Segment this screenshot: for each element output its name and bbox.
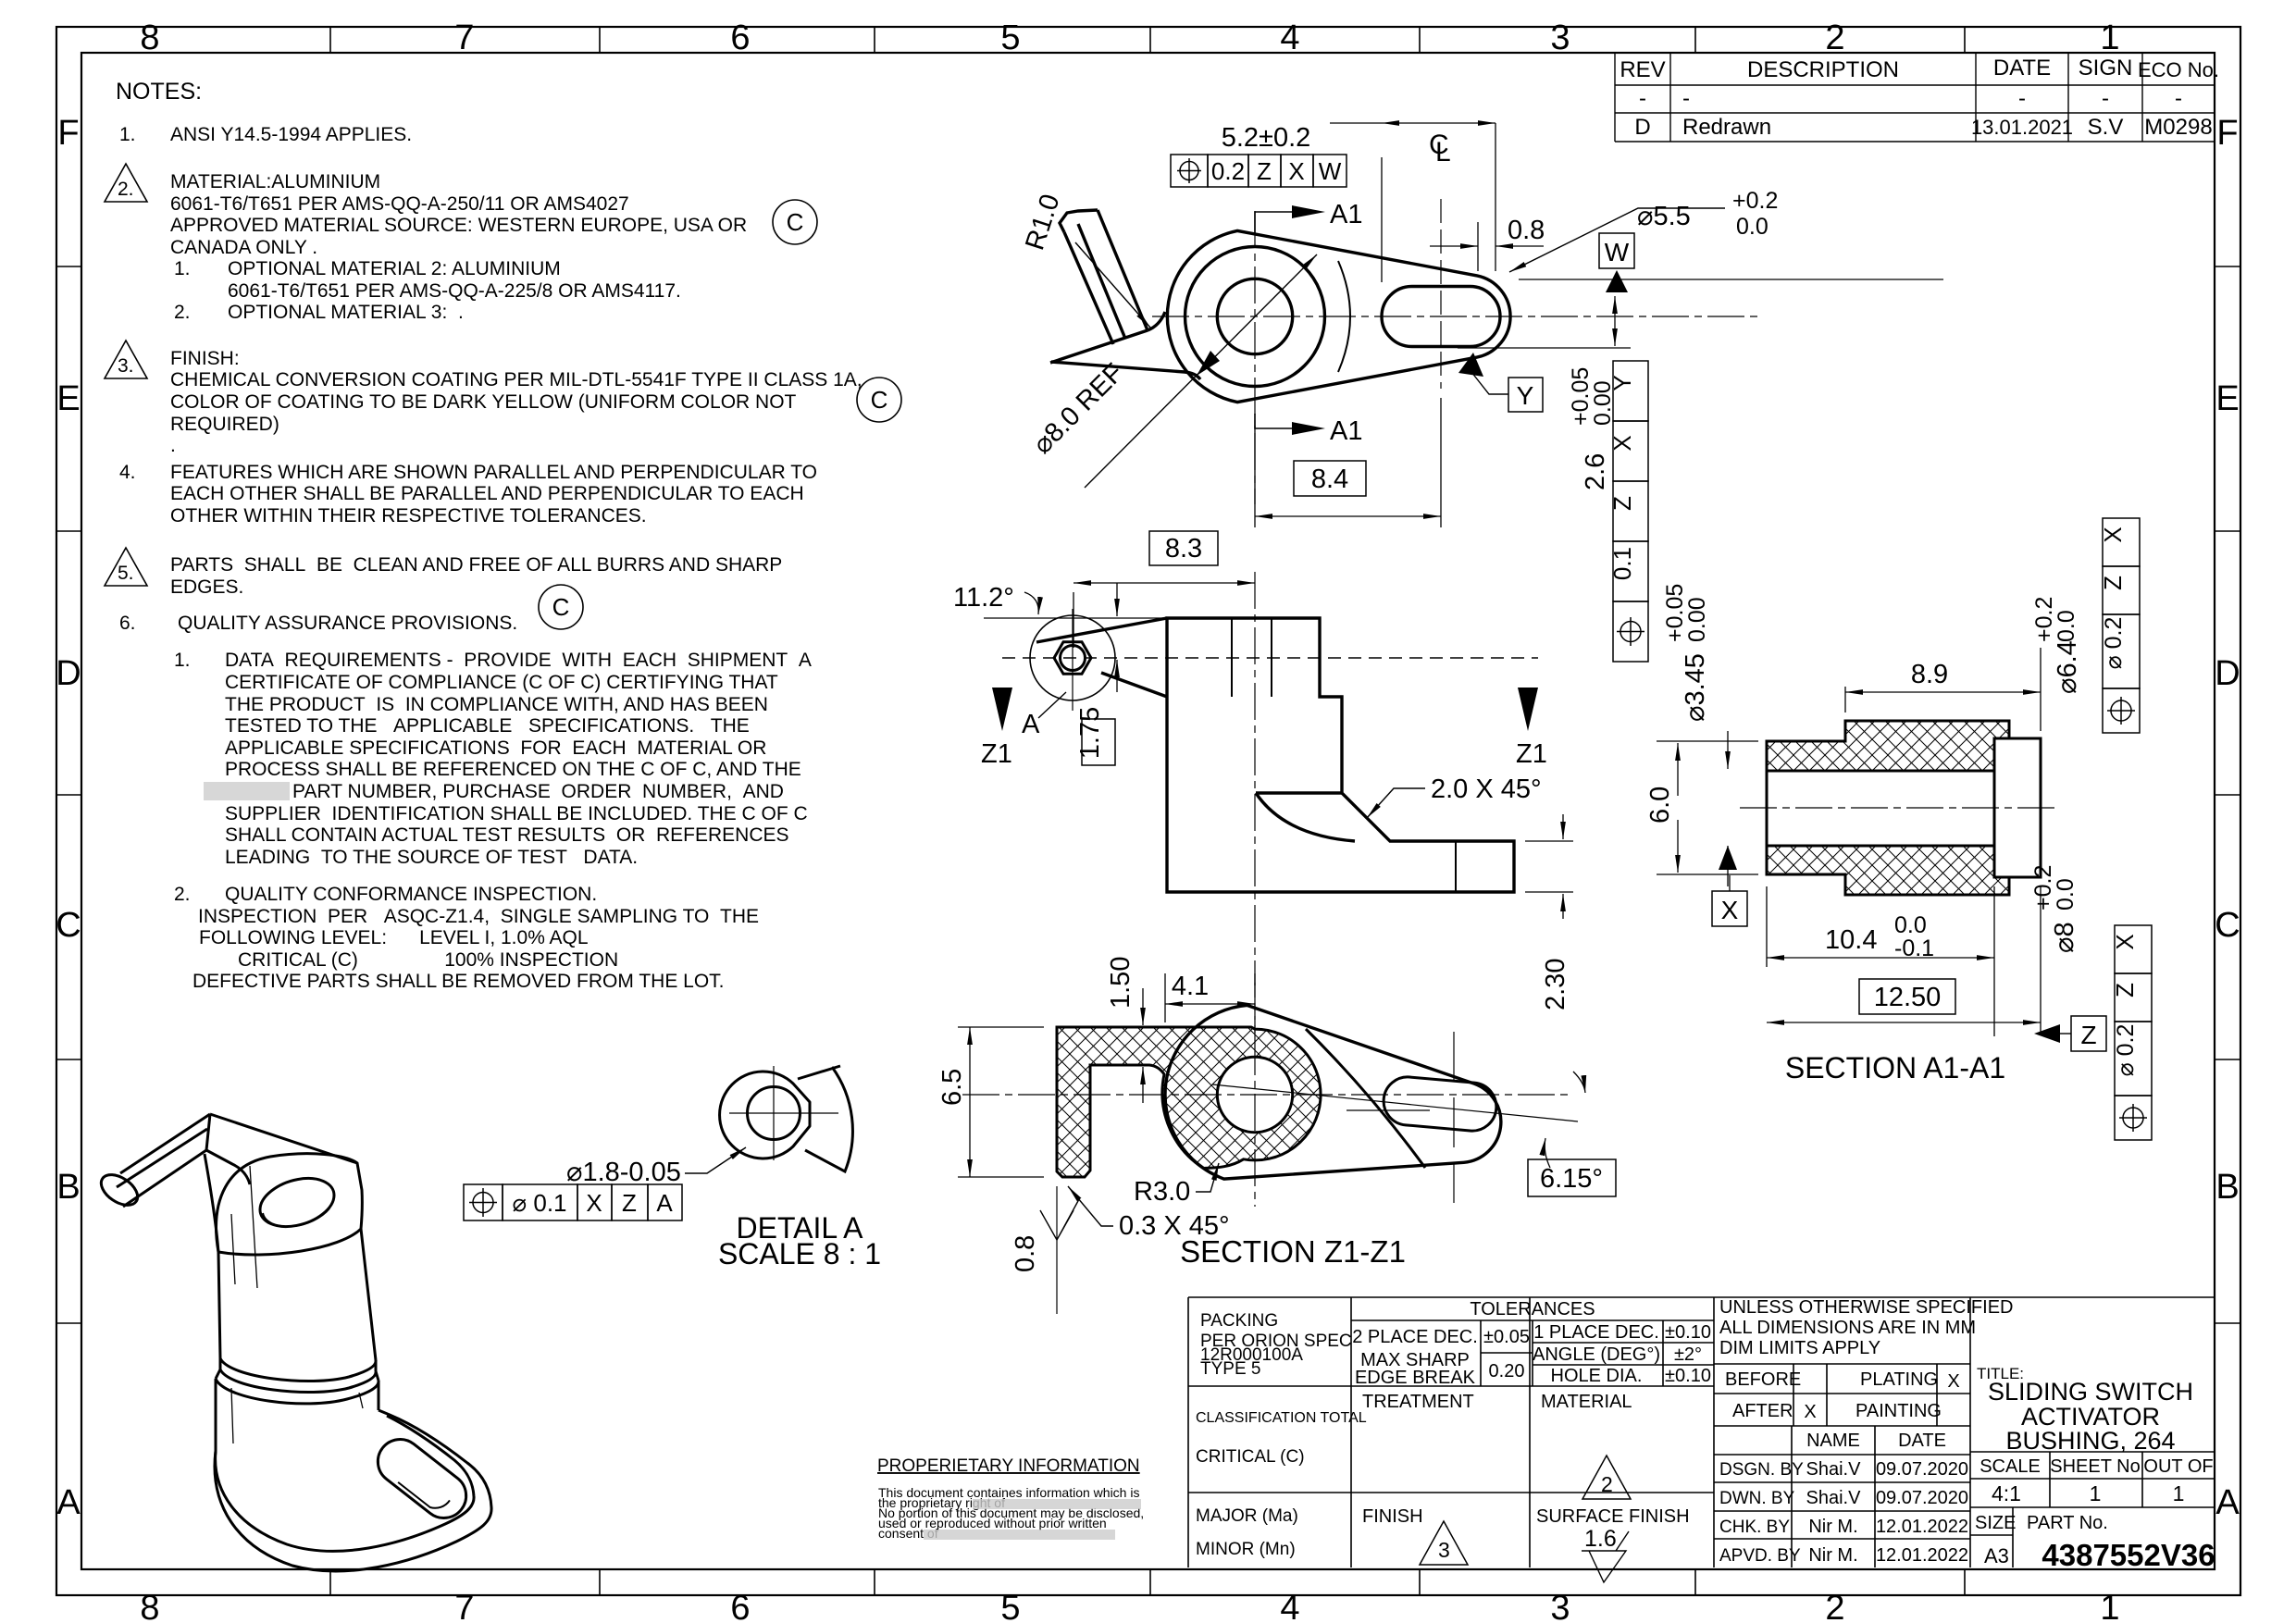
svg-text:8.3: 8.3 (1165, 534, 1202, 564)
svg-text:-: - (2175, 86, 2182, 111)
svg-text:S.V: S.V (2088, 115, 2124, 140)
top view hole Ø3.45 (1217, 279, 1292, 353)
top view boss/plate tangent curve (1338, 261, 1350, 372)
svg-text:MAJOR (Ma): MAJOR (Ma) (1196, 1506, 1298, 1526)
iso step ring upper (220, 1358, 376, 1381)
svg-text:CHK. BY: CHK. BY (1719, 1518, 1790, 1537)
material triangle 2 (1582, 1456, 1631, 1499)
Z1 horizontal centerline (962, 1094, 1573, 1096)
svg-text:2.6: 2.6 (1581, 453, 1610, 490)
1.50 dimension (for section view below) (1142, 988, 1144, 1025)
svg-text:REV: REV (1620, 57, 1665, 82)
svg-text:Z: Z (622, 1189, 637, 1217)
svg-text:±0.05: ±0.05 (1483, 1327, 1530, 1347)
svg-text:2: 2 (1825, 1589, 1844, 1623)
svg-text:3: 3 (1550, 1589, 1570, 1623)
svg-text:AFTER: AFTER (1732, 1401, 1793, 1421)
svg-text:SECTION Z1-Z1: SECTION Z1-Z1 (1180, 1234, 1406, 1269)
svg-text:3.: 3. (118, 355, 134, 377)
svg-text:8.4: 8.4 (1311, 465, 1348, 494)
position frame vertical Y X Z 0.1 (1613, 361, 1648, 662)
Z1 vertical centerline (1254, 983, 1256, 1207)
svg-text:X: X (2099, 527, 2127, 542)
svg-text:PART No.: PART No. (2027, 1513, 2108, 1533)
svg-text:CANADA ONLY .: CANADA ONLY . (170, 237, 317, 258)
svg-text:FEATURES WHICH ARE SHOWN PARAL: FEATURES WHICH ARE SHOWN PARALLEL AND PE… (170, 462, 817, 483)
svg-text:6.15°: 6.15° (1540, 1164, 1603, 1194)
svg-text:5: 5 (1000, 19, 1020, 57)
grid column labels bottom (140, 1589, 2119, 1623)
svg-text:A: A (2215, 1483, 2240, 1522)
svg-text:Z1: Z1 (981, 739, 1012, 769)
lower extension line (slot bottom) (1458, 347, 1631, 349)
notes block (116, 79, 863, 992)
svg-text:⌀5.5: ⌀5.5 (1637, 202, 1691, 231)
svg-text:6: 6 (730, 19, 750, 57)
svg-text:0.00: 0.00 (1684, 597, 1710, 642)
svg-text:PARTS SHALL BE CLEAN AND FR: PARTS SHALL BE CLEAN AND FREE OF ALL BUR… (170, 554, 782, 576)
1.75 dimension (1116, 583, 1118, 616)
8.3 dimension (1149, 531, 1218, 565)
svg-text:3: 3 (1438, 1538, 1450, 1562)
iso tangent lines (231, 1166, 257, 1288)
svg-text:E: E (56, 379, 80, 418)
svg-text:0.8: 0.8 (1011, 1235, 1040, 1272)
svg-text:APVD. BY: APVD. BY (1719, 1546, 1801, 1566)
position frame vertical for Ø6.4: X Z Ø0.2 ⌖ (2103, 518, 2140, 733)
svg-text:.: . (170, 435, 176, 456)
svg-text:MATERIAL:ALUMINIUM: MATERIAL:ALUMINIUM (170, 171, 380, 192)
detail A centerlines (729, 1066, 838, 1160)
svg-text:DSGN. BY: DSGN. BY (1719, 1460, 1804, 1480)
svg-text:-: - (1639, 86, 1646, 111)
svg-text:1: 1 (2100, 19, 2119, 57)
iso step ring lower (220, 1369, 376, 1393)
svg-text:4.1: 4.1 (1172, 972, 1209, 1001)
front view base corner edge (1455, 841, 1457, 892)
svg-text:MINOR (Mn): MINOR (Mn) (1196, 1540, 1296, 1559)
svg-text:2: 2 (1825, 19, 1844, 57)
svg-text:2 PLACE DEC.: 2 PLACE DEC. (1352, 1327, 1478, 1347)
grid column labels top (140, 19, 2119, 57)
svg-text:QUALITY ASSURANCE PROVISIONS.: QUALITY ASSURANCE PROVISIONS. (178, 613, 517, 634)
svg-text:2.0 X 45°: 2.0 X 45° (1431, 774, 1542, 804)
svg-text:X: X (1721, 896, 1739, 924)
svg-text:OUT OF: OUT OF (2143, 1456, 2213, 1477)
svg-text:REQUIRED): REQUIRED) (170, 414, 279, 435)
svg-text:7: 7 (454, 19, 474, 57)
svg-text:12.01.2022: 12.01.2022 (1876, 1517, 1968, 1537)
svg-text:TYPE 5: TYPE 5 (1200, 1359, 1260, 1379)
svg-text:M0298: M0298 (2144, 115, 2212, 140)
svg-text:CHEMICAL CONVERSION COATING PE: CHEMICAL CONVERSION COATING PER MIL-DTL-… (170, 369, 863, 390)
svg-text:APPROVED MATERIAL SOURCE: WEST: APPROVED MATERIAL SOURCE: WESTERN EUROPE… (170, 215, 747, 236)
detail A sector silhouette (798, 1066, 852, 1171)
svg-text:A: A (1022, 710, 1040, 739)
svg-text:DATE: DATE (1993, 56, 2051, 81)
svg-text:A1: A1 (1330, 416, 1362, 446)
Y datum flag (1458, 353, 1483, 377)
svg-text:MATERIAL: MATERIAL (1541, 1392, 1632, 1412)
front view taper lines (1036, 618, 1167, 697)
iso hole ellipse (260, 1178, 334, 1226)
svg-text:A: A (56, 1483, 81, 1522)
svg-text:B: B (2215, 1168, 2239, 1207)
C-of-C circle marks (539, 200, 901, 629)
svg-text:W: W (1605, 238, 1630, 266)
svg-text:A1: A1 (1330, 200, 1362, 229)
svg-text:1.50: 1.50 (1106, 957, 1136, 1009)
A1 left face line (1766, 771, 1769, 846)
svg-text:OPTIONAL MATERIAL 2: ALUMINIUM: OPTIONAL MATERIAL 2: ALUMINIUM (228, 258, 561, 279)
svg-text:±0.10: ±0.10 (1665, 1366, 1711, 1386)
10.4 dimension (1767, 886, 1994, 1036)
svg-text:-: - (1682, 86, 1690, 111)
svg-text:1: 1 (2173, 1481, 2185, 1505)
svg-text:2.: 2. (118, 179, 134, 200)
svg-text:12.01.2022: 12.01.2022 (1876, 1545, 1968, 1566)
iso arm lower edge and fillet (206, 1150, 250, 1184)
svg-text:CERTIFICATE OF COMPLIANCE (C O: CERTIFICATE OF COMPLIANCE (C OF C) CERTI… (225, 672, 778, 693)
top view Ø8.0 REF diagonal leader (1085, 254, 1317, 488)
top view centerline vertical (1254, 211, 1256, 504)
svg-text:11.2°: 11.2° (953, 583, 1014, 613)
svg-text:NAME: NAME (1806, 1431, 1860, 1451)
svg-text:Z: Z (2099, 576, 2127, 590)
svg-text:6.5: 6.5 (937, 1069, 967, 1106)
top view centerline horizontal (1152, 316, 1758, 317)
svg-text:5.2±0.2: 5.2±0.2 (1222, 123, 1311, 153)
svg-text:2.: 2. (174, 884, 191, 905)
svg-text:-: - (2018, 86, 2026, 111)
svg-text:X: X (1947, 1371, 1959, 1392)
iso pin shoulder (206, 1114, 210, 1150)
Ø3.45 arrows (1727, 731, 1729, 769)
svg-text:X: X (2111, 934, 2139, 949)
svg-text:⌀ 0.1: ⌀ 0.1 (512, 1189, 566, 1217)
iso base slot obround (369, 1431, 476, 1527)
svg-text:DEFECTIVE PARTS SHALL BE REMOV: DEFECTIVE PARTS SHALL BE REMOVED FROM TH… (192, 971, 725, 992)
front view body outline (1167, 618, 1514, 892)
Z1 slot obround (tilted) (1382, 1075, 1498, 1133)
svg-text:8.9: 8.9 (1911, 660, 1948, 689)
top view slot centerline (1440, 199, 1442, 389)
svg-text:4: 4 (1280, 1589, 1299, 1623)
svg-text:5.: 5. (118, 563, 134, 584)
12.50 dimension (2040, 886, 2042, 1032)
svg-text:+0.2: +0.2 (1732, 188, 1778, 214)
front view boss edge lines (1232, 618, 1272, 697)
iso base top face edge (216, 1416, 474, 1551)
Z1 slot end centerlines (1347, 1032, 1454, 1203)
svg-text:E: E (2215, 379, 2239, 418)
svg-text:C: C (552, 593, 570, 621)
A1 axis centerline (1740, 807, 2059, 809)
svg-text:APPLICABLE SPECIFICATIONS FOR: APPLICABLE SPECIFICATIONS FOR EACH MATER… (225, 737, 766, 759)
section arrow A1 upper (1255, 212, 1292, 235)
svg-text:X: X (586, 1189, 602, 1217)
svg-text:C: C (787, 208, 804, 236)
svg-text:DWN. BY: DWN. BY (1719, 1489, 1795, 1508)
revision table (1615, 53, 2215, 142)
svg-text:Z: Z (2111, 983, 2139, 997)
iso hole inner wall (263, 1208, 329, 1226)
svg-text:SUPPLIER IDENTIFICATION SHALL: SUPPLIER IDENTIFICATION SHALL BE INCLUDE… (225, 803, 808, 824)
svg-text:ECO No.: ECO No. (2138, 58, 2219, 81)
svg-text:EDGES.: EDGES. (170, 576, 243, 598)
svg-text:A: A (656, 1189, 673, 1217)
svg-text:TESTED TO THE APPLICABLE S: TESTED TO THE APPLICABLE SPECIFICATIONS.… (225, 715, 750, 737)
note triangle 5 (105, 548, 147, 586)
svg-text:CRITICAL (C): CRITICAL (C) (1196, 1447, 1305, 1467)
note triangle 3 (105, 341, 147, 378)
svg-text:DIM LIMITS APPLY: DIM LIMITS APPLY (1719, 1338, 1880, 1358)
svg-text:SURFACE FINISH: SURFACE FINISH (1536, 1506, 1690, 1527)
grid row labels right (2215, 114, 2240, 1522)
svg-text:4:1: 4:1 (1992, 1481, 2021, 1505)
position frame vertical for Ø8: X Z Ø0.2 ⌖ (2115, 925, 2152, 1140)
top view lever pin (1050, 210, 1200, 379)
svg-text:R3.0: R3.0 (1134, 1177, 1190, 1207)
svg-text:F: F (2216, 114, 2238, 153)
svg-text:0.0: 0.0 (2053, 878, 2079, 911)
svg-text:⌀ 0.2: ⌀ 0.2 (2113, 1024, 2139, 1077)
svg-text:DATE: DATE (1898, 1431, 1946, 1451)
svg-text:PACKING: PACKING (1200, 1311, 1278, 1331)
svg-text:Y: Y (1608, 375, 1636, 390)
6.0 dimension (1657, 741, 1758, 874)
svg-text:ALL DIMENSIONS ARE IN MM: ALL DIMENSIONS ARE IN MM (1719, 1318, 1976, 1338)
svg-text:DESCRIPTION: DESCRIPTION (1747, 57, 1899, 82)
top view slot Ø5.5 obround (1382, 287, 1500, 347)
svg-text:10.4: 10.4 (1825, 925, 1877, 955)
svg-text:±2°: ±2° (1674, 1344, 1702, 1365)
svg-text:THE PRODUCT IS IN COMPLIANCE: THE PRODUCT IS IN COMPLIANCE WITH, AND H… (225, 694, 768, 715)
svg-text:SECTION A1-A1: SECTION A1-A1 (1785, 1051, 2005, 1084)
top view teardrop outline (1167, 230, 1510, 402)
svg-text:SIZE: SIZE (1975, 1513, 2016, 1533)
svg-text:LEADING TO THE SOURCE OF TEST: LEADING TO THE SOURCE OF TEST DATA. (225, 847, 638, 868)
svg-text:⌀6.4: ⌀6.4 (2053, 640, 2082, 694)
svg-text:D: D (2215, 654, 2240, 693)
svg-text:X: X (1608, 435, 1636, 451)
svg-text:DATA REQUIREMENTS - PROVIDE: DATA REQUIREMENTS - PROVIDE WITH EACH SH… (225, 650, 812, 671)
svg-text:X: X (1804, 1402, 1816, 1422)
title text (1977, 1365, 2193, 1455)
svg-text:TOLERANCES: TOLERANCES (1470, 1299, 1595, 1319)
detail A hole Ø1.8 (748, 1087, 800, 1140)
iso arm left face edge (205, 1154, 218, 1252)
svg-text:SHALL CONTAIN ACTUAL TEST RESU: SHALL CONTAIN ACTUAL TEST RESULTS OR REF… (225, 824, 789, 846)
svg-text:⌀1.8-0.05: ⌀1.8-0.05 (566, 1158, 681, 1187)
svg-text:12.50: 12.50 (1874, 983, 1942, 1012)
svg-text:0.0: 0.0 (1736, 214, 1769, 240)
svg-text:1.75: 1.75 (1075, 707, 1105, 759)
svg-text:Shai.V: Shai.V (1806, 1459, 1862, 1480)
Z1 outer teardrop silhouette (1165, 1005, 1501, 1179)
svg-text:1: 1 (2090, 1481, 2102, 1505)
0.8 surface finish symbol (1040, 1199, 1079, 1240)
svg-text:OTHER WITHIN THEIR RESPECTIVE: OTHER WITHIN THEIR RESPECTIVE TOLERANCES… (170, 505, 647, 527)
svg-text:F: F (57, 114, 79, 153)
svg-text:Z: Z (1257, 157, 1272, 185)
iso lower cylinder sides (216, 1379, 379, 1451)
svg-text:X: X (1288, 157, 1304, 185)
svg-text:D: D (1634, 115, 1650, 140)
svg-text:ANSI Y14.5-1994 APPLIES.: ANSI Y14.5-1994 APPLIES. (170, 124, 412, 145)
finish triangle 3 (1420, 1521, 1468, 1565)
front view hex pin tip (1054, 642, 1091, 675)
iso upper cylinder sides (218, 1229, 376, 1360)
svg-text:6: 6 (730, 1589, 750, 1623)
front view centerline (1254, 572, 1256, 1038)
svg-text:Shai.V: Shai.V (1806, 1488, 1862, 1508)
svg-text:Z1: Z1 (1516, 739, 1547, 769)
front view lever circle (detail A boundary) (1030, 615, 1115, 700)
svg-text:3: 3 (1550, 19, 1570, 57)
svg-text:UNLESS OTHERWISE SPECIFIED: UNLESS OTHERWISE SPECIFIED (1719, 1297, 2013, 1318)
svg-text:1.: 1. (174, 258, 191, 279)
svg-text:FINISH: FINISH (1362, 1506, 1423, 1527)
front view hidden pin axis (1002, 657, 1538, 659)
svg-text:INSPECTION PER ASQC-Z1.4,: INSPECTION PER ASQC-Z1.4, SINGLE SAMPLIN… (198, 906, 759, 927)
6.5 dimension (958, 1027, 1044, 1177)
svg-text:SCALE 8 : 1: SCALE 8 : 1 (718, 1237, 881, 1270)
svg-text:PART NUMBER, PURCHASE ORDER: PART NUMBER, PURCHASE ORDER NUMBER, AND (292, 781, 784, 802)
svg-text:1 PLACE DEC.: 1 PLACE DEC. (1533, 1322, 1659, 1343)
svg-text:QUALITY CONFORMANCE INSPECTION: QUALITY CONFORMANCE INSPECTION. (225, 884, 597, 905)
svg-text:A3: A3 (1984, 1544, 2009, 1567)
detail A position frame (464, 1184, 682, 1220)
svg-text:EACH OTHER SHALL BE PARALLEL A: EACH OTHER SHALL BE PARALLEL AND PERPEND… (170, 483, 804, 504)
svg-text:Nir M.: Nir M. (1808, 1517, 1857, 1537)
svg-text:0.0: 0.0 (1894, 912, 1927, 938)
svg-text:5: 5 (1000, 1589, 1020, 1623)
svg-text:BEFORE: BEFORE (1725, 1369, 1801, 1390)
grid row labels left (56, 114, 81, 1522)
svg-text:W: W (1319, 157, 1342, 185)
svg-text:1.6: 1.6 (1584, 1526, 1617, 1552)
svg-text:PROPERIETARY INFORMATION: PROPERIETARY INFORMATION (877, 1456, 1140, 1476)
svg-text:SLIDING SWITCH: SLIDING SWITCH (1988, 1378, 2193, 1406)
Z1 hatched cut region (1057, 1027, 1321, 1177)
svg-text:2: 2 (1601, 1472, 1613, 1496)
svg-text:Z: Z (2080, 1021, 2096, 1049)
A1 upper hatched wall (1767, 721, 2009, 771)
front view shoulder line (1256, 791, 1342, 794)
svg-text:D: D (56, 654, 81, 693)
Z1 boss/plate curve (1306, 1029, 1425, 1168)
svg-text:6.: 6. (119, 613, 136, 634)
blurred part-name redaction in note 6.1 (204, 782, 290, 800)
section line Z1 left arrow (992, 688, 1012, 731)
svg-text:FINISH:: FINISH: (170, 348, 240, 369)
svg-text:0.0: 0.0 (2054, 610, 2079, 642)
Z1 slot axis tilted line (1212, 1084, 1578, 1121)
svg-text:OPTIONAL MATERIAL 3: .: OPTIONAL MATERIAL 3: . (228, 302, 464, 323)
svg-text:09.07.2020: 09.07.2020 (1876, 1488, 1968, 1508)
svg-text:0.20: 0.20 (1489, 1361, 1525, 1381)
svg-text:09.07.2020: 09.07.2020 (1876, 1459, 1968, 1480)
svg-text:COLOR OF COATING TO BE DARK YE: COLOR OF COATING TO BE DARK YELLOW (UNIF… (170, 391, 797, 413)
svg-text:0.1: 0.1 (1608, 547, 1636, 580)
svg-text:Y: Y (1517, 381, 1534, 410)
svg-text:⌀ 0.2: ⌀ 0.2 (2101, 617, 2127, 670)
svg-text:FOLLOWING LEVEL: LEVEL I,: FOLLOWING LEVEL: LEVEL I, 1.0% AQL (199, 927, 589, 948)
iso pin end cap (95, 1169, 143, 1211)
A1 lower hatched wall (1767, 846, 2009, 895)
svg-text:1.: 1. (174, 650, 191, 671)
svg-text:6.0: 6.0 (1645, 787, 1675, 824)
svg-text:TREATMENT: TREATMENT (1362, 1392, 1474, 1412)
iso base slab silhouette (215, 1410, 491, 1571)
svg-text:C: C (56, 906, 81, 945)
svg-text:4: 4 (1280, 19, 1299, 57)
svg-text:6061-T6/T651 PER AMS-QQ-A-250/: 6061-T6/T651 PER AMS-QQ-A-250/11 OR AMS4… (170, 193, 629, 215)
iso base slot inner wall (398, 1468, 450, 1514)
W datum flag (1599, 233, 1634, 268)
svg-text:2.: 2. (174, 302, 191, 323)
svg-text:C: C (871, 386, 888, 414)
svg-text:L: L (1435, 137, 1451, 167)
iso arm top edge (210, 1114, 357, 1163)
svg-text:PROCESS SHALL BE REFERENCED ON: PROCESS SHALL BE REFERENCED ON THE C OF … (225, 759, 801, 780)
svg-text:B: B (56, 1168, 80, 1207)
svg-text:Nir M.: Nir M. (1808, 1545, 1857, 1566)
Z1 hole Ø3.45 (1217, 1057, 1292, 1132)
svg-text:4387552V36: 4387552V36 (2042, 1538, 2215, 1572)
A1 right end face (1994, 738, 2041, 877)
svg-text:13.01.2021: 13.01.2021 (1971, 116, 2073, 139)
svg-text:NOTES:: NOTES: (116, 79, 202, 105)
svg-text:Redrawn: Redrawn (1682, 115, 1771, 140)
svg-text:⌀3.45: ⌀3.45 (1681, 653, 1710, 722)
svg-text:8: 8 (140, 1589, 159, 1623)
svg-text:CLASSIFICATION TOTAL: CLASSIFICATION TOTAL (1196, 1410, 1367, 1426)
top view boss circle Ø6.4 (1185, 247, 1325, 387)
svg-text:C: C (2215, 906, 2240, 945)
iso lower cylinder top ellipse (216, 1379, 379, 1404)
8.9 dimension (1845, 648, 2041, 731)
X datum flag (1729, 875, 1731, 891)
W surface extension line (1519, 279, 1943, 280)
iso teardrop top face (217, 1154, 363, 1255)
svg-text:7: 7 (454, 1589, 474, 1623)
svg-text:SCALE: SCALE (1980, 1456, 2041, 1477)
svg-text:BUSHING, 264: BUSHING, 264 (2005, 1427, 2175, 1455)
6.15° angle dimension (1528, 1159, 1616, 1196)
svg-text:0.8: 0.8 (1508, 216, 1545, 245)
svg-text:Z: Z (1608, 496, 1636, 511)
iso pin edges (117, 1114, 210, 1207)
svg-text:HOLE DIA.: HOLE DIA. (1551, 1366, 1643, 1386)
front view fillet curve R3 (1256, 793, 1355, 841)
svg-text:SHEET No: SHEET No (2050, 1456, 2140, 1477)
svg-text:6061-T6/T651 PER AMS-QQ-A-225/: 6061-T6/T651 PER AMS-QQ-A-225/8 OR AMS41… (228, 280, 681, 302)
svg-text:CRITICAL (C) 10: CRITICAL (C) 100% INSPECTION (238, 949, 618, 971)
2.30 dimension (1525, 841, 1573, 892)
svg-text:1.: 1. (119, 124, 136, 145)
svg-text:8: 8 (140, 19, 159, 57)
svg-text:-0.1: -0.1 (1894, 935, 1934, 961)
svg-text:2.30: 2.30 (1541, 959, 1570, 1010)
section arrow A1 lower (1255, 414, 1292, 428)
note triangle 2 (105, 164, 147, 586)
svg-text:4.: 4. (119, 462, 136, 483)
position frame 0.2 Z X W (1171, 155, 1347, 187)
svg-text:PLATING: PLATING (1860, 1369, 1938, 1390)
svg-text:0.2: 0.2 (1211, 157, 1245, 185)
